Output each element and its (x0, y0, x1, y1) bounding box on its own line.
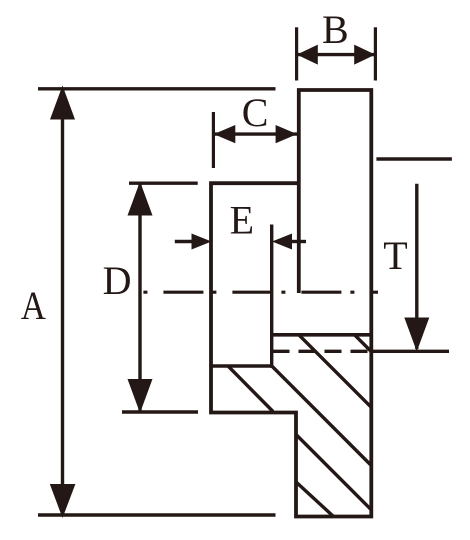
dimension B right extension line (374, 27, 377, 80)
dimension E left arrowhead (192, 234, 212, 250)
svg-text:E: E (230, 197, 254, 242)
dimension D top arrowhead (128, 182, 153, 216)
hatch line H4a (228, 366, 273, 412)
dimension D bottom extension line (122, 410, 198, 413)
svg-text:D: D (103, 258, 132, 303)
dimension C line (213, 132, 297, 135)
dimension A top arrowhead (50, 86, 75, 120)
dimension B left extension line (295, 27, 298, 80)
hatch line H4b (296, 435, 371, 510)
dimension E right arrowhead (272, 234, 292, 250)
dimension B left arrowhead (297, 45, 318, 65)
dimension A top extension line (38, 87, 276, 90)
dimension D bottom arrowhead (128, 379, 153, 413)
dimension B line (297, 53, 376, 56)
bore step edge (also E extension line) (270, 225, 273, 368)
hatch line H2 (299, 335, 372, 408)
socket bottom wall (209, 364, 271, 368)
pipe end hidden line (273, 350, 372, 353)
dimension T arrowhead (404, 318, 429, 352)
svg-text:C: C (242, 90, 269, 135)
dimension T top extension line (376, 157, 452, 160)
svg-text:B: B (322, 7, 349, 52)
flange and hub silhouette (211, 90, 371, 517)
dimension C left arrowhead (214, 125, 236, 143)
dimension T line (415, 184, 418, 349)
center line (143, 291, 378, 294)
dimension E right arrow tail (290, 240, 306, 243)
dimension A bottom extension line (38, 513, 276, 516)
dimension D line (138, 184, 141, 412)
svg-text:T: T (383, 233, 407, 278)
hatch line H5 (296, 482, 334, 517)
dimension A line (61, 89, 64, 515)
dimension T bottom extension line (373, 350, 449, 353)
svg-text:A: A (21, 283, 46, 328)
dimension D top extension line (129, 181, 198, 184)
dimension E left arrow tail (175, 240, 194, 243)
hatch line H3 (272, 366, 372, 466)
dimension C right arrowhead (276, 125, 298, 143)
hatch line H1 (355, 335, 373, 353)
bore wall (272, 333, 372, 337)
dimension C extension line (212, 112, 215, 168)
dimension A bottom arrowhead (50, 484, 76, 518)
dimension B right arrowhead (354, 45, 375, 65)
